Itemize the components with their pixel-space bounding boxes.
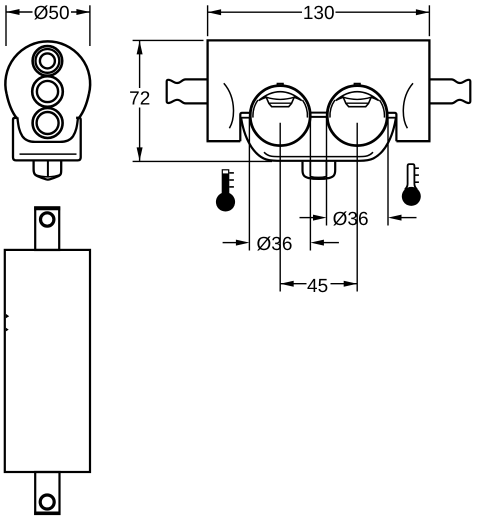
dimension 45 arrow right xyxy=(344,281,358,287)
thermometer cold stem xyxy=(405,164,417,190)
extension line right circle left tangent xyxy=(326,118,328,226)
bottom mounting tab xyxy=(35,472,59,514)
dimension 72 line upper segment xyxy=(139,41,141,88)
dimension 72 extension line bottom xyxy=(133,160,272,162)
left valve cap bucket rim arc xyxy=(266,97,294,99)
bracket seam line xyxy=(20,153,77,155)
extension line left circle right tangent xyxy=(309,118,311,251)
bottom tab hole xyxy=(40,495,54,509)
dimension 130 arrow left xyxy=(208,9,222,15)
side view body xyxy=(5,250,90,472)
dimension 72 extension line top xyxy=(133,39,204,41)
dimension D50 extension line right xyxy=(89,5,91,46)
outlet nut left flat xyxy=(309,162,311,177)
left pipe stub xyxy=(167,79,208,103)
clamp bridge upper line between circles xyxy=(306,112,330,114)
svg-text:72: 72 xyxy=(129,89,150,110)
clamp left ear xyxy=(240,113,250,141)
extension line left circle left tangent xyxy=(248,118,250,251)
left edge mark upper xyxy=(6,314,9,318)
left valve cap inner rim arc left xyxy=(253,100,258,118)
clamp left ear shelf xyxy=(241,117,251,119)
body bottom edge right segment xyxy=(396,140,430,142)
right valve cap inner rim arc left xyxy=(330,100,335,118)
middle port inner ring xyxy=(37,81,58,102)
svg-text:45: 45 xyxy=(307,276,328,297)
dimension D36 right arrow left outside xyxy=(313,215,327,221)
body interior curve right xyxy=(403,83,413,128)
dimension D36 left arrow right outside xyxy=(310,240,324,246)
clamp right ear xyxy=(387,113,397,141)
left edge mark lower xyxy=(6,328,9,332)
right valve cap top index tab xyxy=(354,84,360,87)
thermometer cold bulb xyxy=(402,187,421,206)
clamp right ear shelf xyxy=(387,117,397,119)
top port outer circle xyxy=(33,46,63,76)
clamp seam line xyxy=(264,152,373,156)
svg-text:130: 130 xyxy=(303,3,335,24)
dimension D50 arrow right xyxy=(76,9,90,15)
outlet nut bottom chord xyxy=(310,175,326,178)
dimension D36 left arrow left outside xyxy=(236,240,250,246)
dimension 130 extension line left xyxy=(207,5,209,36)
top port inner ring xyxy=(40,53,55,68)
thermometer hot bulb xyxy=(216,192,235,211)
bottom tab thick bottom edge xyxy=(34,512,60,515)
bottom port inner ring xyxy=(37,112,59,134)
left valve cap grip line xyxy=(269,102,291,104)
dimension D36 right arrow left tail xyxy=(300,217,314,219)
dimension 130 line left segment xyxy=(208,11,302,13)
dimension 72 arrow bottom xyxy=(137,147,143,161)
right valve cap visor xyxy=(336,92,379,107)
dimension D36 right arrow right outside xyxy=(388,215,402,221)
svg-text:Ø36: Ø36 xyxy=(333,209,369,230)
outlet nut right flat xyxy=(325,162,327,177)
extension line right circle right tangent xyxy=(387,118,389,226)
dimension D50 line left segment xyxy=(6,11,33,13)
dimension D36 right arrow right tail xyxy=(401,217,417,219)
body bottom edge left segment xyxy=(207,140,241,142)
thermometer hot stem xyxy=(222,169,230,195)
mixer body outline xyxy=(208,40,430,141)
dimension D50 extension line left xyxy=(5,5,7,46)
svg-text:Ø36: Ø36 xyxy=(257,234,293,255)
right valve cap inner rim arc right xyxy=(380,100,385,118)
dimension D50 line right segment xyxy=(71,11,90,13)
top tab hole xyxy=(41,213,54,226)
left valve cap outer circle xyxy=(250,86,310,146)
top port middle ring xyxy=(36,49,60,73)
top tab thick top edge xyxy=(34,207,60,211)
clamp bridge lower line between circles xyxy=(306,116,330,118)
middle port outer circle xyxy=(32,76,63,107)
bottom port outer circle xyxy=(33,108,63,138)
dimension 45 arrow left xyxy=(280,281,294,287)
thermometer hot ticks xyxy=(229,173,234,187)
right valve cap grip line xyxy=(346,102,368,104)
wall bracket xyxy=(13,118,81,161)
dimension D50 arrow left xyxy=(6,9,20,15)
right valve cap bucket rim arc xyxy=(343,97,371,99)
dimension 130 line right segment xyxy=(336,11,430,13)
svg-text:Ø50: Ø50 xyxy=(34,3,70,24)
clamp saddle outer edge xyxy=(241,119,396,161)
dimension 45 line right segment xyxy=(331,283,358,285)
dimension D36 left arrow left tail xyxy=(223,242,237,244)
dimension 130 extension line right xyxy=(428,5,430,36)
dimension 130 arrow right xyxy=(416,9,430,15)
head side extension right xyxy=(79,94,89,118)
dimension 72 line lower segment xyxy=(139,108,141,161)
top mounting tab xyxy=(35,207,59,250)
dimension D36 left arrow right tail xyxy=(323,242,339,244)
center line left valve xyxy=(279,123,281,292)
head cup below circle xyxy=(17,117,78,142)
hex nut bottom chord xyxy=(35,175,61,177)
left valve cap inner rim arc right xyxy=(303,100,308,118)
center line right valve xyxy=(356,123,358,292)
head side extension left xyxy=(7,94,17,118)
hex nut under bracket xyxy=(34,162,62,180)
dimension 72 arrow top xyxy=(137,41,143,55)
thermometer cold ticks xyxy=(414,168,419,182)
hex nut center edge xyxy=(47,162,49,177)
left valve cap visor xyxy=(259,92,302,107)
body interior curve left xyxy=(224,83,234,128)
thermometer hot stem notch xyxy=(223,170,228,173)
right valve cap outer circle xyxy=(327,86,387,146)
head outer circle arc xyxy=(5,41,90,94)
outlet nut xyxy=(303,162,336,179)
left valve cap top index tab xyxy=(277,84,283,87)
right pipe stub xyxy=(429,79,470,103)
dimension 45 line left segment xyxy=(280,283,306,285)
